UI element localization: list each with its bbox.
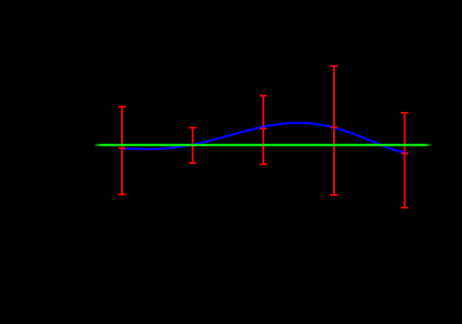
data point marker 2 — [189, 144, 196, 146]
error bar 2 stem — [192, 128, 194, 163]
error bar 1 top cap — [118, 106, 125, 108]
error bar 4 stem — [333, 66, 335, 195]
data point marker 5 — [401, 152, 408, 154]
error bar 3 bottom cap — [260, 163, 267, 165]
error bar 5 stem — [404, 113, 406, 208]
fit curve (blue) — [122, 123, 409, 154]
error bar 1 stem — [121, 107, 123, 195]
error bar 1 bottom cap — [118, 193, 125, 195]
error bar 3 top cap — [260, 95, 267, 97]
error bar 3 stem — [262, 96, 264, 165]
error bar 4 bottom cap — [330, 194, 337, 196]
error bar 5 bottom cap — [401, 207, 408, 209]
data point marker 3 — [260, 128, 267, 130]
error bar 5 top cap — [401, 112, 408, 114]
error bar 2 bottom cap — [189, 162, 196, 164]
error bar 4 top cap — [330, 65, 337, 67]
error bar 2 top cap — [189, 127, 196, 129]
data point marker 1 — [119, 147, 126, 149]
data point marker 4 — [331, 126, 338, 128]
zero line (green) — [94, 144, 431, 147]
